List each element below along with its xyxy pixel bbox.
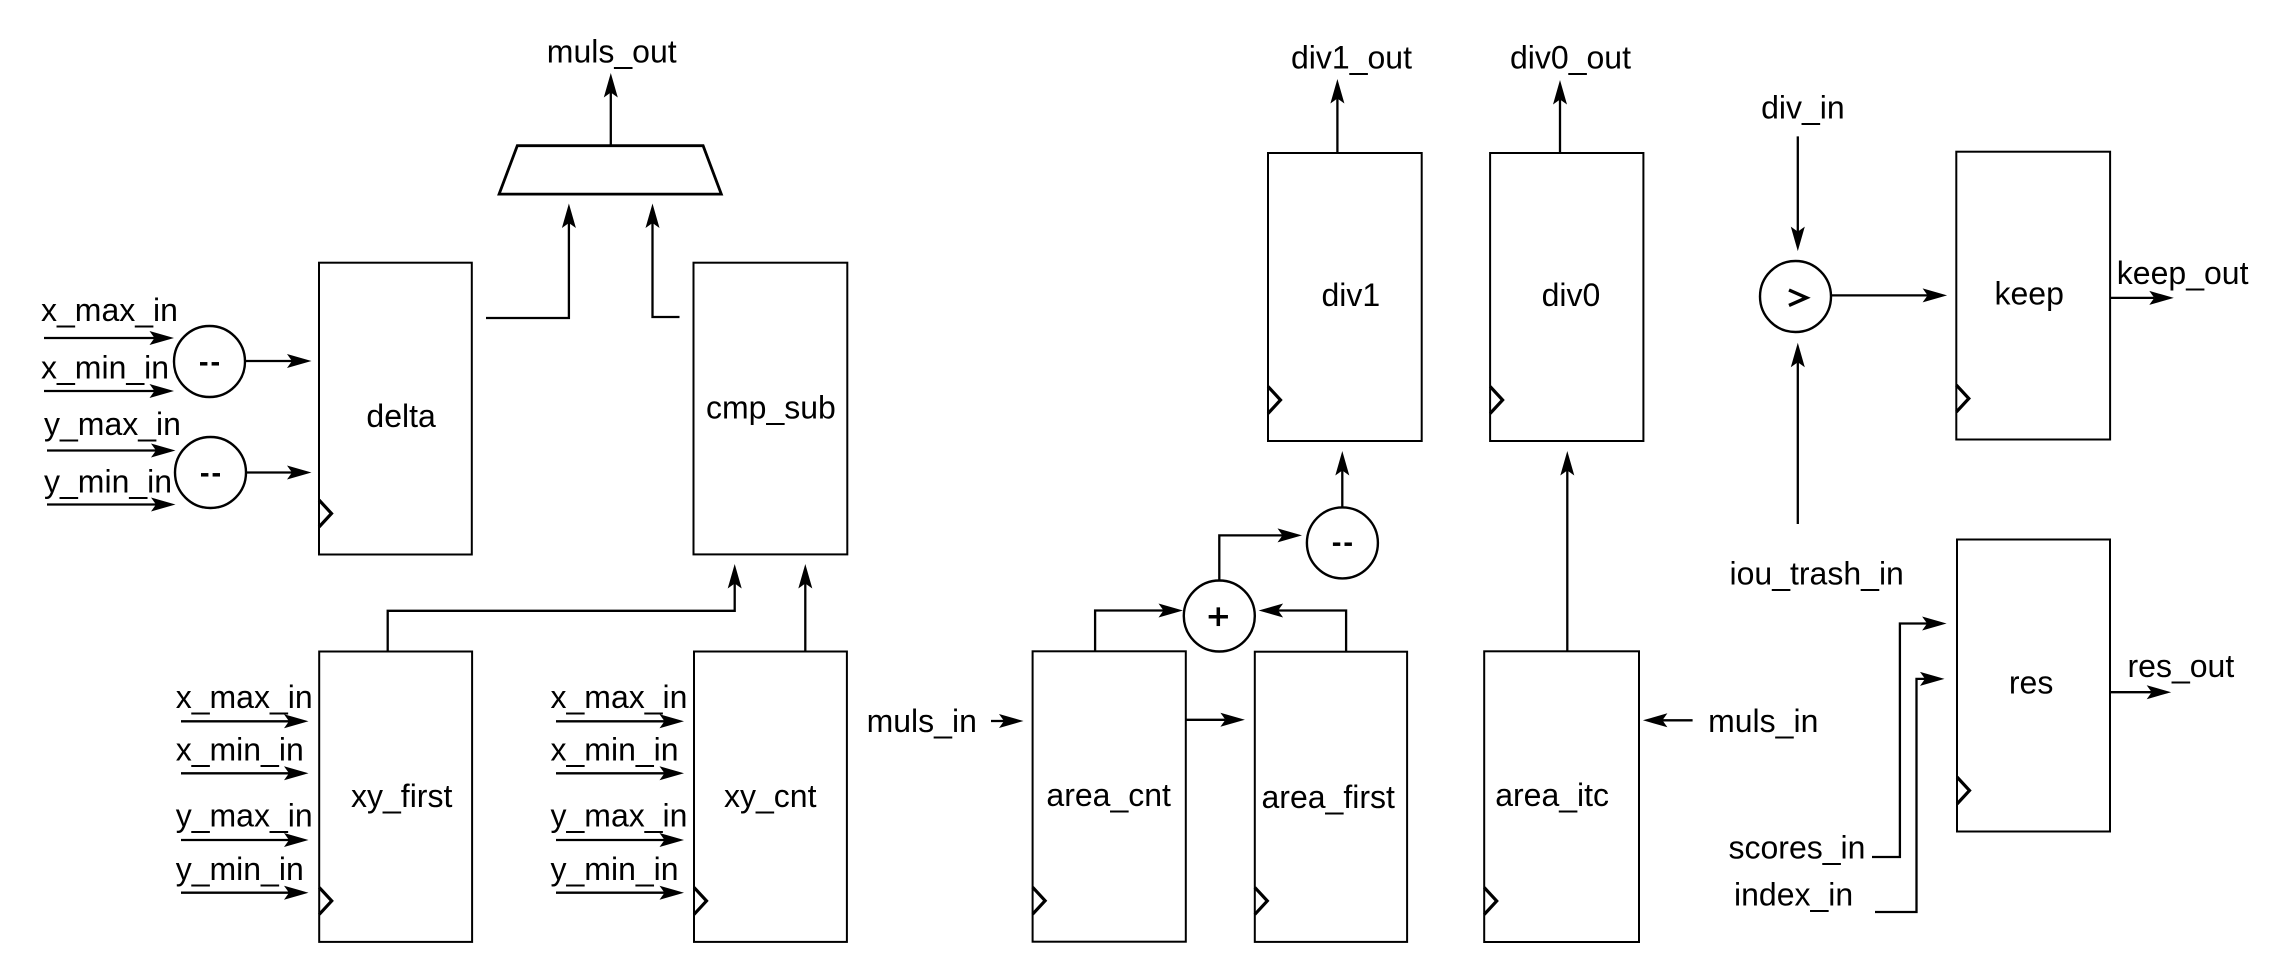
- clock chevron div1: [1268, 387, 1281, 414]
- svg-text:y_min_in: y_min_in: [44, 464, 172, 500]
- svg-text:div0: div0: [1542, 277, 1601, 313]
- module res: [1957, 540, 2110, 832]
- svg-text:x_max_in: x_max_in: [551, 679, 688, 715]
- input label y_max_in (xy_first): [176, 798, 313, 834]
- input label scores_in: [1729, 830, 1866, 866]
- input label x_min_in (xy_first): [176, 732, 304, 768]
- svg-text:delta: delta: [366, 398, 436, 434]
- wire S2 output into delta: [247, 471, 292, 473]
- output label div1_out: [1291, 40, 1412, 76]
- input label index_in: [1734, 877, 1853, 913]
- svg-text:muls_in: muls_in: [867, 703, 977, 739]
- svg-text:area_itc: area_itc: [1495, 777, 1609, 813]
- clock chevron delta: [319, 500, 332, 527]
- subtractor S2 (y_max - y_min): [175, 437, 246, 508]
- svg-text:div0_out: div0_out: [1510, 40, 1631, 76]
- svg-text:iou_trash_in: iou_trash_in: [1730, 555, 1904, 591]
- wire area_itc to div0: [1566, 471, 1568, 652]
- wire scores_in into res: [1872, 624, 1927, 858]
- svg-text:y_min_in: y_min_in: [176, 851, 304, 887]
- clock chevron area_itc: [1484, 888, 1497, 915]
- svg-text:xy_cnt: xy_cnt: [724, 778, 817, 814]
- svg-text:keep_out: keep_out: [2117, 255, 2249, 291]
- wire delta to mux: [486, 223, 569, 318]
- svg-text:y_max_in: y_max_in: [44, 406, 181, 442]
- svg-text:x_min_in: x_min_in: [551, 732, 679, 768]
- clock chevron xy_first: [319, 887, 332, 914]
- svg-text:res: res: [2009, 664, 2053, 700]
- wire res output res_out: [2110, 691, 2152, 693]
- subtractor S1 (x_max - x_min): [174, 326, 245, 397]
- wire y_max_in into subtractor S2: [47, 449, 156, 451]
- wire area_cnt to area_first: [1186, 719, 1226, 721]
- wire x_max_in into subtractor S1: [44, 337, 155, 339]
- wire x_min_in into subtractor S1: [44, 390, 155, 392]
- svg-text:x_max_in: x_max_in: [41, 292, 178, 328]
- module delta: [319, 263, 472, 555]
- wire y_max_in into xy_cnt: [556, 839, 665, 841]
- module xy_first: [319, 652, 472, 942]
- input label x_min_in (xy_cnt): [551, 732, 679, 768]
- wire xy_first to cmp_sub: [388, 584, 735, 652]
- input label muls_in (area_itc): [1708, 703, 1818, 739]
- input label y_min_in (delta): [44, 464, 172, 500]
- input label div_in: [1761, 90, 1845, 126]
- wire xy_cnt to cmp_sub: [804, 584, 806, 652]
- svg-text:scores_in: scores_in: [1729, 830, 1866, 866]
- svg-text:muls_in: muls_in: [1708, 703, 1818, 739]
- input label y_min_in (xy_first): [176, 851, 304, 887]
- wire y_min_in into xy_first: [181, 892, 289, 894]
- wire y_min_in into xy_cnt: [556, 892, 665, 894]
- svg-text:area_first: area_first: [1262, 779, 1396, 815]
- wire div_in into comparator CMP: [1797, 136, 1799, 231]
- clock chevron div0: [1490, 387, 1503, 414]
- svg-text:x_min_in: x_min_in: [176, 732, 304, 768]
- wire div0 output div0_out: [1559, 100, 1561, 154]
- wire comparator CMP to keep: [1832, 294, 1928, 296]
- svg-text:div1: div1: [1322, 277, 1381, 313]
- svg-text:index_in: index_in: [1734, 877, 1853, 913]
- clock chevron area_first: [1255, 887, 1268, 914]
- comparator CMP (>): [1760, 261, 1831, 332]
- input label x_min_in (delta): [41, 350, 169, 386]
- input label y_min_in (xy_cnt): [551, 851, 679, 887]
- adder A1 plus sign: [1209, 607, 1228, 626]
- svg-text:xy_first: xy_first: [351, 778, 452, 814]
- svg-text:x_min_in: x_min_in: [41, 350, 169, 386]
- module area_first: [1255, 652, 1407, 942]
- wire y_max_in into xy_first: [181, 839, 289, 841]
- clock chevron xy_cnt: [694, 887, 707, 914]
- input label y_max_in (xy_cnt): [551, 798, 688, 834]
- input label y_max_in (delta): [44, 406, 181, 442]
- input label x_max_in (xy_first): [176, 679, 313, 715]
- module div0: [1490, 153, 1643, 441]
- output label div0_out: [1510, 40, 1631, 76]
- module area_itc: [1484, 651, 1639, 942]
- input label x_max_in (xy_cnt): [551, 679, 688, 715]
- wire muls_in into area_cnt: [991, 720, 1004, 722]
- wire index_in into res: [1875, 679, 1925, 912]
- wire x_min_in into xy_first: [181, 772, 289, 774]
- module xy_cnt: [694, 652, 847, 942]
- wire muls_in into area_itc: [1662, 719, 1692, 721]
- wire x_max_in into xy_cnt: [556, 720, 665, 722]
- wire div1 output div1_out: [1336, 99, 1338, 154]
- output label res_out: [2128, 648, 2235, 684]
- svg-text:muls_out: muls_out: [547, 34, 677, 70]
- svg-text:div1_out: div1_out: [1291, 40, 1412, 76]
- wire keep output keep_out: [2110, 297, 2154, 299]
- output label muls_out: [547, 34, 677, 70]
- wire iou_trash_in into comparator CMP: [1797, 362, 1799, 524]
- adder A1 (+): [1184, 581, 1255, 652]
- svg-text:div_in: div_in: [1761, 90, 1845, 126]
- svg-text:cmp_sub: cmp_sub: [706, 390, 836, 426]
- module cmp_sub: [694, 263, 848, 555]
- input label x_max_in (delta): [41, 292, 178, 328]
- svg-text:y_max_in: y_max_in: [551, 798, 688, 834]
- module keep: [1956, 152, 2110, 440]
- module area_cnt: [1033, 651, 1186, 941]
- clock chevron keep: [1956, 385, 1969, 412]
- input label iou_trash_in: [1730, 555, 1904, 591]
- wire x_max_in into xy_first: [181, 720, 289, 722]
- svg-text:x_max_in: x_max_in: [176, 679, 313, 715]
- svg-text:y_min_in: y_min_in: [551, 851, 679, 887]
- wire area_cnt to adder A1: [1095, 611, 1163, 652]
- wire S1 output into delta: [246, 360, 292, 362]
- module div1: [1268, 153, 1422, 441]
- clock chevron area_cnt: [1033, 887, 1046, 914]
- subtractor S3 (--): [1307, 507, 1378, 578]
- output label keep_out: [2117, 255, 2249, 291]
- wire adder A1 to subtractor S3: [1219, 535, 1282, 580]
- svg-text:area_cnt: area_cnt: [1046, 777, 1171, 813]
- wire subtractor S3 to div1: [1341, 471, 1343, 509]
- wire area_first to adder A1: [1278, 611, 1346, 652]
- mux M1 (trapezoid): [499, 146, 721, 194]
- wire y_min_in into subtractor S2: [47, 503, 156, 505]
- wire mux output muls_out: [610, 93, 612, 146]
- wire x_min_in into xy_cnt: [556, 772, 665, 774]
- input label muls_in (area_cnt): [867, 703, 977, 739]
- wire cmp_sub to mux: [653, 223, 680, 317]
- clock chevron res: [1957, 777, 1970, 804]
- svg-text:keep: keep: [1995, 276, 2064, 312]
- svg-text:y_max_in: y_max_in: [176, 798, 313, 834]
- svg-text:res_out: res_out: [2128, 648, 2235, 684]
